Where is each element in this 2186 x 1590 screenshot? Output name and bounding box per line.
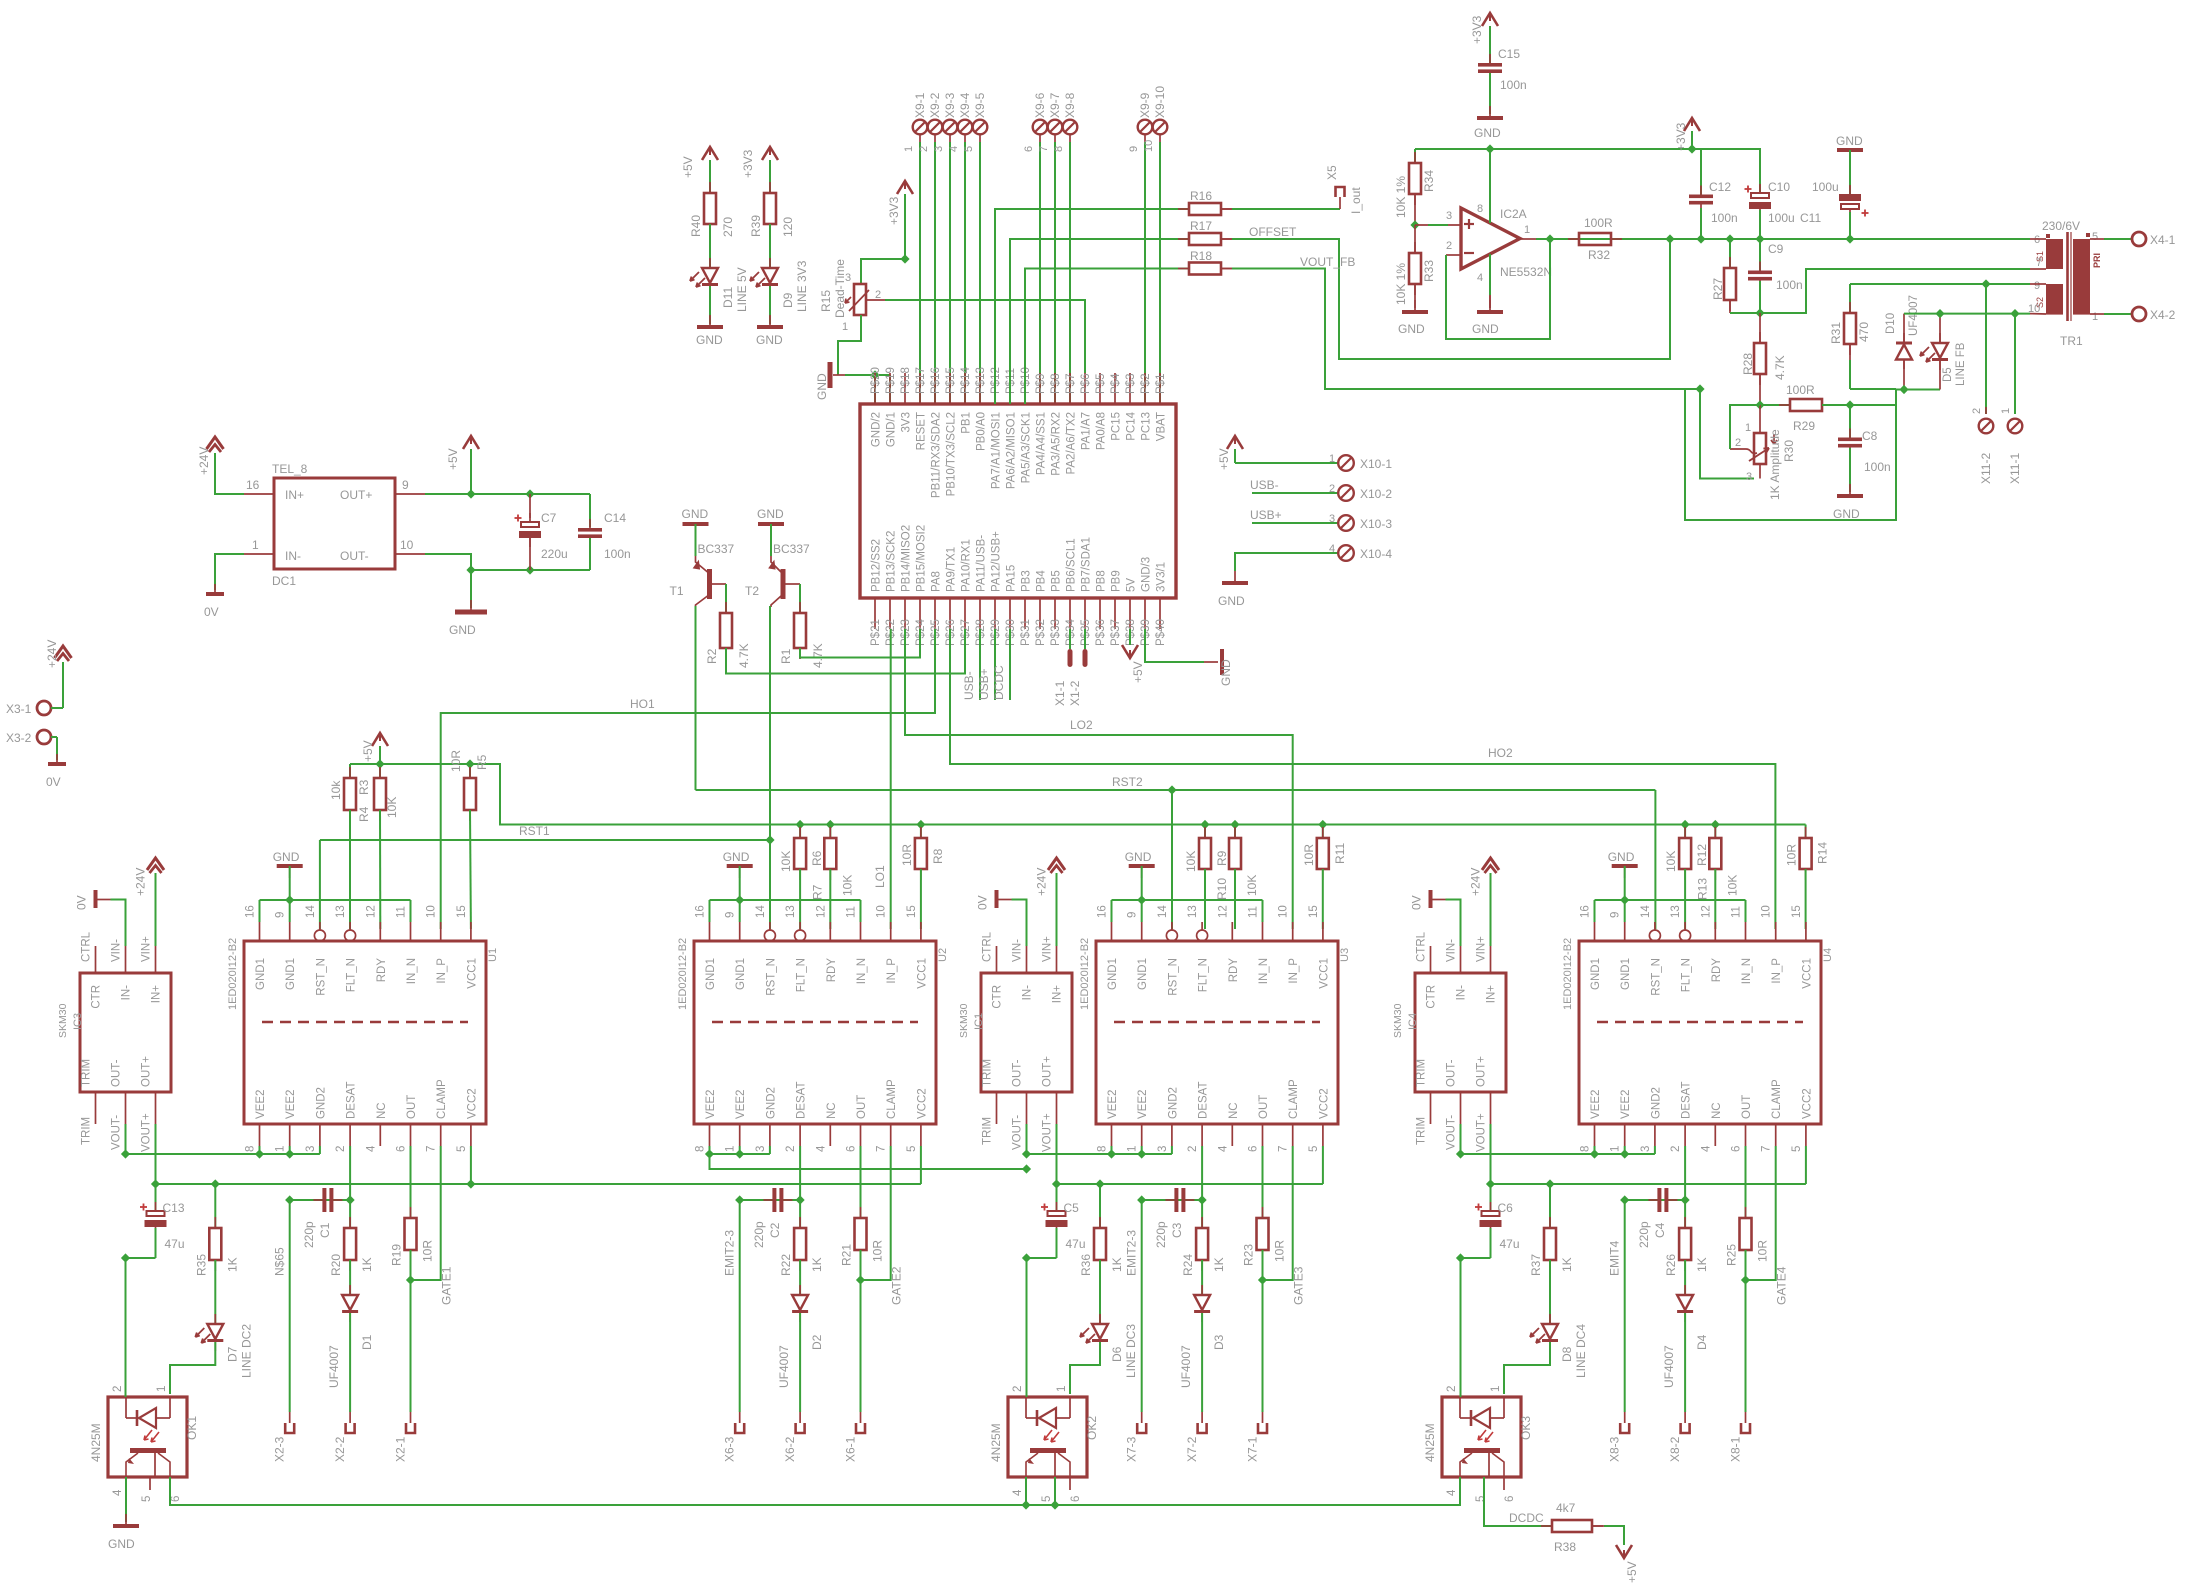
svg-text:4: 4 — [1446, 1489, 1458, 1496]
U4 pin 8 VEE2 (bottom) — [1594, 1124, 1596, 1146]
transistor T2 BC337 — [781, 569, 786, 599]
connector pad X10-3 — [1338, 515, 1354, 531]
LED D5 LINE FB — [1899, 385, 1908, 394]
svg-text:GND2: GND2 — [765, 1087, 777, 1119]
svg-text:9: 9 — [402, 478, 409, 492]
svg-text:5: 5 — [1475, 1496, 1487, 1502]
U2 pin 9 GND1 (top) — [739, 922, 741, 941]
svg-text:+24V: +24V — [1469, 868, 1483, 896]
svg-text:GND: GND — [682, 507, 709, 521]
svg-text:1ED020I12-B2: 1ED020I12-B2 — [1562, 938, 1574, 1010]
wire D10/D5 to TR1 pin10 — [1904, 313, 2030, 315]
svg-text:2: 2 — [1670, 1146, 1682, 1152]
svg-text:VIN+: VIN+ — [141, 936, 153, 962]
wire GND rail (U3) — [1112, 899, 1263, 901]
svg-text:SKM30: SKM30 — [57, 1003, 69, 1038]
wire DESAT column — [799, 1146, 801, 1228]
MCU pin P$2 (top) — [1144, 373, 1146, 404]
wire X9-10 to MCU — [1159, 134, 1161, 142]
svg-text:CTRL: CTRL — [1416, 931, 1428, 962]
svg-text:1K: 1K — [225, 1257, 239, 1272]
resistor R13 10K — [1714, 825, 1716, 839]
IC1 pin VIN+ — [1056, 946, 1058, 973]
svg-text:R5: R5 — [475, 754, 489, 770]
svg-text:1: 1 — [2092, 311, 2098, 323]
optocoupler OK2 4N25M — [1008, 1397, 1087, 1477]
U2 pin 7 CLAMP (bottom) — [890, 1124, 892, 1146]
MCU pin P$11 (top) — [1009, 373, 1011, 404]
svg-text:1: 1 — [1490, 1386, 1502, 1392]
wire D1 to X2-2 — [349, 1313, 351, 1412]
supply +5V (X10) — [1227, 436, 1243, 449]
wire GND to MCU P$20/P$19 — [870, 370, 879, 379]
resistor R27 — [1729, 239, 1731, 268]
svg-text:6: 6 — [1023, 146, 1035, 152]
wire DC1 OUT- to GND/C7/C14 — [425, 554, 590, 570]
connector pad X9-2 — [928, 120, 943, 135]
svg-text:2: 2 — [1187, 1146, 1199, 1152]
svg-text:2: 2 — [1012, 1386, 1024, 1392]
svg-text:100u: 100u — [1768, 211, 1795, 225]
svg-text:100u: 100u — [1812, 180, 1839, 194]
wire R20 to D1 — [349, 1260, 351, 1295]
U3 pin 9 GND1 (top) — [1141, 922, 1143, 941]
svg-text:10K: 10K — [779, 851, 793, 872]
svg-text:15: 15 — [1308, 905, 1320, 918]
svg-text:3V3/1: 3V3/1 — [1156, 562, 1168, 592]
svg-text:R12: R12 — [1695, 844, 1709, 866]
svg-text:CTRL: CTRL — [982, 931, 994, 962]
svg-text:P$36: P$36 — [1095, 619, 1107, 646]
svg-text:6: 6 — [170, 1496, 182, 1502]
svg-text:C5: C5 — [1064, 1201, 1080, 1215]
svg-text:11: 11 — [396, 906, 408, 918]
svg-text:VEE2: VEE2 — [1107, 1090, 1119, 1119]
svg-text:PC15: PC15 — [1111, 412, 1123, 441]
svg-text:10k: 10k — [329, 780, 343, 800]
svg-text:10: 10 — [426, 905, 438, 918]
IC4 pin VIN- — [1460, 946, 1462, 973]
svg-text:IC1: IC1 — [973, 1013, 985, 1030]
svg-text:4.7K: 4.7K — [811, 643, 825, 668]
wire IC4 VOUT- to OK3 pin2 — [1460, 1258, 1462, 1397]
wire VEE2 rail — [1026, 1124, 1028, 1154]
wire C6 to VOUT- — [1461, 1257, 1491, 1259]
svg-text:4: 4 — [948, 146, 960, 152]
svg-text:1: 1 — [1329, 453, 1335, 465]
connector pad X9-8 — [1063, 120, 1078, 135]
svg-text:3: 3 — [1446, 210, 1452, 222]
connector pad X9-4 — [958, 120, 973, 135]
svg-text:UF4007: UF4007 — [327, 1345, 341, 1388]
wire D2 to X6-2 — [799, 1313, 801, 1412]
svg-text:2: 2 — [918, 146, 930, 152]
wire D7 to optocoupler — [170, 1342, 215, 1394]
wire VCC2 rail — [1056, 1124, 1058, 1184]
svg-text:D5: D5 — [1942, 367, 1954, 382]
svg-text:9: 9 — [1128, 146, 1140, 152]
op-amp IC2A NE5532N — [1461, 208, 1520, 269]
svg-text:15: 15 — [1791, 905, 1803, 918]
wire R30 pin3 to VOUT_FB — [1759, 464, 1761, 479]
svg-text:9: 9 — [275, 912, 287, 918]
svg-text:RST_N: RST_N — [315, 958, 327, 996]
net stub DCDC (MCU P$30) — [1009, 629, 1011, 700]
U3 pin 14 RST_N (top) — [1171, 922, 1173, 930]
svg-text:X9-9: X9-9 — [1138, 92, 1152, 118]
svg-text:OUT: OUT — [406, 1095, 418, 1119]
svg-text:GATE2: GATE2 — [890, 1266, 904, 1305]
svg-text:PB6/SCL1: PB6/SCL1 — [1066, 538, 1078, 592]
U1 pin 14 RST_N (top) — [319, 922, 321, 930]
svg-text:PA0/A8: PA0/A8 — [1096, 412, 1108, 450]
svg-text:X5: X5 — [1325, 165, 1339, 180]
svg-text:LINE DC4: LINE DC4 — [1574, 1324, 1588, 1378]
U2 pin 1 VEE2 (bottom) — [739, 1124, 741, 1146]
wire OK2 pin5 to bus — [1054, 1477, 1056, 1505]
svg-text:11: 11 — [846, 906, 858, 918]
U1 pin 10 IN_P (top) — [440, 922, 442, 941]
svg-text:10: 10 — [876, 905, 888, 918]
connector pad X8-2 — [1681, 1423, 1690, 1433]
resistor R22 1K — [799, 1217, 801, 1228]
svg-text:1: 1 — [1524, 224, 1530, 236]
svg-text:220p: 220p — [1154, 1221, 1168, 1248]
wire MCU P$11 to R17 — [1010, 239, 1189, 404]
capacitor C10 100u (electrolytic) — [1692, 149, 1760, 192]
U1 pin 6 OUT (bottom) — [410, 1124, 412, 1146]
wire R23 to GATE3/pad — [1262, 1250, 1264, 1412]
svg-text:I_out: I_out — [1349, 187, 1363, 214]
wire R31 bottom (unused stub) — [1849, 360, 1851, 389]
svg-text:VOUT+: VOUT+ — [1042, 1113, 1054, 1152]
wire op-amp output rail — [1536, 238, 2030, 240]
U4 pin 16 GND1 (top) — [1594, 922, 1596, 941]
svg-text:220u: 220u — [541, 547, 568, 561]
svg-text:47u: 47u — [1500, 1237, 1520, 1251]
net GATE3 to CLAMP — [1263, 1146, 1293, 1280]
resistor R29 100R — [1779, 404, 1790, 406]
resistor R23 10R — [1262, 1146, 1264, 1218]
svg-text:R24: R24 — [1181, 1254, 1195, 1276]
wire R2 to MCU P$27 — [726, 629, 965, 674]
IC3 pin VOUT- — [125, 1092, 127, 1124]
svg-text:10: 10 — [1278, 905, 1290, 918]
svg-text:270: 270 — [721, 217, 735, 237]
U3 pin 10 IN_P (top) — [1292, 922, 1294, 941]
svg-text:IN_P: IN_P — [436, 958, 448, 984]
svg-text:D1: D1 — [360, 1334, 374, 1350]
svg-text:FLT_N: FLT_N — [1198, 958, 1210, 992]
capacitor C11 100u (electrolytic) — [1849, 150, 1851, 194]
ground GND (X10) — [1234, 571, 1236, 583]
svg-text:C12: C12 — [1709, 180, 1731, 194]
svg-text:EMIT2-3: EMIT2-3 — [1125, 1230, 1139, 1276]
svg-text:P$7: P$7 — [1065, 374, 1077, 394]
U1 pin 1 VEE2 (bottom) — [289, 1124, 291, 1146]
svg-text:R33: R33 — [1422, 260, 1436, 282]
wire X9-9 to MCU — [1144, 134, 1146, 142]
svg-text:R26: R26 — [1664, 1254, 1678, 1276]
IC3 pin TRIM (bottom stub) — [95, 1092, 97, 1124]
wire OK1 pin5 stub — [149, 1477, 151, 1490]
U3 pin 15 VCC1 (top) — [1322, 922, 1324, 941]
svg-text:T2: T2 — [745, 584, 759, 598]
svg-text:13: 13 — [335, 905, 347, 918]
wire C5 to VOUT- — [1027, 1257, 1057, 1259]
svg-text:VIN+: VIN+ — [1042, 936, 1054, 962]
net N$65 column — [289, 1200, 291, 1412]
svg-text:PB8: PB8 — [1096, 570, 1108, 592]
svg-text:3: 3 — [1746, 471, 1752, 483]
IC1 pin VOUT- — [1026, 1092, 1028, 1124]
wire OK1 pin4 to GND — [125, 1477, 127, 1522]
svg-text:GND: GND — [1472, 322, 1499, 336]
svg-text:CLAMP: CLAMP — [1771, 1079, 1783, 1119]
wire R24 to D3 — [1201, 1260, 1203, 1295]
capacitor C4 220p — [1625, 1199, 1685, 1201]
svg-text:R31: R31 — [1829, 322, 1843, 344]
MCU pin P$19 (top) — [889, 373, 891, 404]
svg-text:R3: R3 — [357, 779, 371, 795]
U3 pin 8 VEE2 (bottom) — [1111, 1124, 1113, 1146]
svg-text:1ED020I12-B2: 1ED020I12-B2 — [677, 938, 689, 1010]
bottom bus wire (OK1 pin6 to OK3 pin4) — [170, 1477, 1460, 1505]
svg-text:2: 2 — [1446, 240, 1452, 252]
svg-text:P$5: P$5 — [1095, 374, 1107, 394]
wire MCU P$12 to R16 — [995, 209, 1189, 404]
svg-text:P$32: P$32 — [1035, 619, 1047, 646]
svg-text:C2: C2 — [768, 1222, 782, 1238]
U4 pin 5 VCC2 (bottom) — [1805, 1124, 1807, 1146]
svg-text:10: 10 — [1143, 140, 1155, 152]
svg-text:VCC2: VCC2 — [916, 1088, 928, 1119]
svg-text:OUT+: OUT+ — [141, 1056, 153, 1087]
svg-text:VCC2: VCC2 — [466, 1088, 478, 1119]
wire GND rail (U2) — [710, 899, 861, 901]
svg-text:1: 1 — [842, 321, 848, 333]
resistor R35 1K — [214, 1184, 216, 1228]
svg-text:RST_N: RST_N — [1650, 958, 1662, 996]
svg-text:PA11/USB-: PA11/USB- — [976, 535, 988, 592]
IC1 pin TRIM (bottom stub) — [996, 1092, 998, 1124]
0V symbol (IC1) — [995, 890, 999, 908]
resistor R5 10R (U1 VCC1) — [469, 764, 471, 778]
connector pad X6-2 — [796, 1423, 805, 1433]
wire DESAT column — [349, 1146, 351, 1228]
svg-text:RST_N: RST_N — [765, 958, 777, 996]
svg-text:X10-3: X10-3 — [1360, 517, 1392, 531]
svg-text:X3-2: X3-2 — [6, 731, 32, 745]
svg-text:P$9: P$9 — [1035, 374, 1047, 394]
svg-text:IN+: IN+ — [151, 985, 163, 1004]
svg-text:P$1: P$1 — [1155, 374, 1167, 394]
gate driver U3 1ED020I12-B2 — [1096, 941, 1338, 1124]
svg-text:10R: 10R — [449, 750, 463, 772]
wire D4 to X8-2 — [1684, 1313, 1686, 1412]
svg-text:OK2: OK2 — [1085, 1416, 1099, 1440]
svg-text:IN_P: IN_P — [1288, 958, 1300, 984]
svg-text:GND: GND — [756, 333, 783, 347]
svg-text:X11-1: X11-1 — [2008, 453, 2022, 484]
wire R16 to X5 — [1221, 208, 1232, 210]
svg-text:1: 1 — [275, 1146, 287, 1152]
supply +24V (IC1) — [1048, 858, 1065, 870]
connector pad X9-10 — [1153, 120, 1168, 135]
svg-text:VEE2: VEE2 — [735, 1090, 747, 1119]
IC3 pin CTRL (top stub) — [95, 946, 97, 973]
svg-text:P$15: P$15 — [945, 367, 957, 394]
supply +3V3 (R15) — [904, 194, 906, 259]
U3 pin 11 IN_N (top) — [1262, 922, 1264, 941]
trimmer R15 Dead-Time — [854, 284, 866, 315]
svg-text:+24V: +24V — [134, 868, 148, 896]
MCU pin P$26 (bottom) — [949, 598, 951, 629]
svg-text:+5V: +5V — [1625, 1561, 1639, 1583]
svg-text:VEE2: VEE2 — [1620, 1090, 1632, 1119]
MCU pin P$28 (bottom) — [979, 598, 981, 629]
svg-text:PB15/MOSI2: PB15/MOSI2 — [916, 525, 928, 592]
wire R28/R29/R30 node — [1755, 400, 1764, 409]
svg-text:GND: GND — [1125, 850, 1152, 864]
0V symbol (left) — [56, 754, 58, 764]
base lead T2 — [786, 583, 801, 585]
IC3 pin VIN+ — [155, 946, 157, 973]
wire MCU P$39 to +5V — [1129, 629, 1131, 645]
MCU pin P$23 (bottom) — [904, 598, 906, 629]
svg-text:R4: R4 — [357, 806, 371, 822]
svg-text:DCDC: DCDC — [992, 665, 1006, 700]
svg-text:OUT+: OUT+ — [340, 488, 372, 502]
U4 pin 12 RDY (top) — [1714, 922, 1716, 941]
svg-text:1K: 1K — [360, 1257, 374, 1272]
svg-text:C9: C9 — [1768, 242, 1784, 256]
svg-text:LO1: LO1 — [873, 865, 887, 888]
svg-text:4: 4 — [1012, 1489, 1024, 1496]
svg-text:+5V: +5V — [1217, 448, 1231, 470]
svg-text:VCC2: VCC2 — [1801, 1088, 1813, 1119]
svg-text:NC: NC — [826, 1102, 838, 1119]
resistor R31 470 — [1849, 284, 1851, 313]
svg-text:PRI: PRI — [2092, 253, 2102, 268]
wire +5V to R40 — [709, 160, 711, 193]
LED D6 LINE DC3 — [1099, 1314, 1101, 1324]
svg-text:TRIM: TRIM — [1416, 1117, 1428, 1145]
MCU pin P$37 (bottom) — [1114, 598, 1116, 629]
svg-text:10K: 10K — [1245, 875, 1259, 896]
svg-text:SKM30: SKM30 — [958, 1003, 970, 1038]
MCU pin P$14 (top) — [964, 373, 966, 404]
wire GND rail (U4) — [1595, 899, 1746, 901]
wire +24V to IC1 VIN+ — [1056, 873, 1058, 946]
wire net LO1 MCU P$22 to U2 pin10 — [890, 629, 892, 929]
svg-text:GATE3: GATE3 — [1292, 1266, 1306, 1305]
svg-text:7: 7 — [1761, 1146, 1773, 1152]
svg-text:C13: C13 — [163, 1201, 185, 1215]
svg-text:3: 3 — [933, 146, 945, 152]
U3 pin 4 NC (bottom) — [1231, 1124, 1233, 1146]
svg-text:1: 1 — [725, 1146, 737, 1152]
svg-text:P$2: P$2 — [1140, 374, 1152, 394]
svg-text:C6: C6 — [1498, 1201, 1514, 1215]
wire R34/R33 node to op-amp pin3 — [1410, 220, 1419, 229]
svg-text:OUT-: OUT- — [1012, 1059, 1024, 1087]
svg-text:PA15: PA15 — [1006, 565, 1018, 592]
net EMIT2-3 column — [1141, 1200, 1143, 1412]
wire GND to T1 collector — [695, 524, 697, 556]
diode D3 UF4007 — [1201, 1285, 1203, 1295]
U2 pin 16 GND1 (top) — [709, 922, 711, 941]
svg-text:PA1/A7: PA1/A7 — [1081, 412, 1093, 450]
svg-text:P$21: P$21 — [870, 619, 882, 646]
ground GND (OK1) — [125, 1514, 127, 1526]
svg-text:9: 9 — [1127, 912, 1139, 918]
wire D8 to optocoupler — [1504, 1342, 1550, 1394]
svg-text:2: 2 — [1735, 437, 1741, 449]
svg-text:R19: R19 — [390, 1244, 404, 1266]
U2 pin 5 VCC2 (bottom) — [920, 1124, 922, 1146]
svg-text:6: 6 — [1070, 1496, 1082, 1502]
op-amp pin 2 feedback — [1446, 254, 1461, 256]
svg-text:D11: D11 — [721, 287, 735, 308]
svg-text:R27: R27 — [1711, 278, 1725, 300]
supply +5V (R40) — [702, 147, 718, 160]
svg-text:N$65: N$65 — [273, 1247, 287, 1276]
svg-text:VEE2: VEE2 — [705, 1090, 717, 1119]
connector pad X9-1 — [913, 120, 928, 135]
svg-text:GND1: GND1 — [1137, 958, 1149, 990]
svg-text:USB-: USB- — [962, 671, 976, 700]
svg-text:P$19: P$19 — [885, 367, 897, 394]
svg-text:100R: 100R — [1584, 216, 1613, 230]
wire DC1 OUT+ to +5V/C7/C14 — [425, 493, 590, 495]
capacitor C5 47u — [1056, 1184, 1058, 1210]
net stub USB+ (X10-3) — [1252, 522, 1338, 524]
svg-text:+24V: +24V — [45, 640, 59, 668]
U3 pin 5 VCC2 (bottom) — [1322, 1124, 1324, 1146]
svg-text:IN+: IN+ — [1052, 985, 1064, 1004]
op-amp pin 4 to GND — [1489, 254, 1491, 308]
svg-text:GND2: GND2 — [1650, 1087, 1662, 1119]
connector pad X2-1 — [406, 1423, 415, 1433]
svg-text:GND2: GND2 — [315, 1087, 327, 1119]
svg-text:GND: GND — [273, 850, 300, 864]
wire net LO2 MCU P$23 to U3 pin10 — [905, 629, 1293, 929]
connector pad X1-1 — [1068, 649, 1073, 667]
wire 0V to DC1 IN- — [215, 554, 244, 590]
IC3 pin VIN- — [125, 946, 127, 973]
resistor R19 10R — [410, 1146, 412, 1218]
svg-text:10K: 10K — [385, 797, 399, 818]
MCU pin P$33 (bottom) — [1054, 598, 1056, 629]
svg-text:CTR: CTR — [91, 985, 103, 1009]
svg-text:X4-2: X4-2 — [2150, 308, 2176, 322]
svg-text:GND1: GND1 — [705, 958, 717, 990]
connector pad (emitter) — [1137, 1423, 1146, 1433]
wire +3V3 rail (op-amp) — [1415, 148, 1760, 150]
wire X11-1 riser — [2014, 314, 2016, 414]
MCU pin P$21 (bottom) — [874, 598, 876, 629]
svg-text:5: 5 — [963, 146, 975, 152]
svg-text:470: 470 — [1857, 322, 1871, 342]
svg-text:X9-8: X9-8 — [1063, 92, 1077, 118]
base lead T1 — [712, 583, 726, 585]
DC/DC converter IC1 SKM30 — [981, 973, 1072, 1092]
resistor R4 10K (U1 RDY pullup) — [379, 764, 381, 778]
U4 pin 10 IN_P (top) — [1775, 922, 1777, 941]
DC/DC converter IC4 SKM30 — [1415, 973, 1506, 1092]
svg-text:TR1: TR1 — [2060, 334, 2083, 348]
